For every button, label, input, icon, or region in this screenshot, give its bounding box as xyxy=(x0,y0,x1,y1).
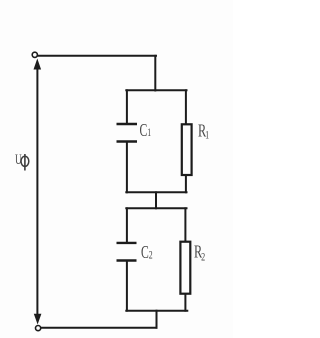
wire block2 bottom edge xyxy=(126,310,187,312)
terminal top (circle) xyxy=(32,52,37,57)
wire feed down to block 1 xyxy=(154,56,156,91)
label C2 xyxy=(141,243,153,263)
wire top horizontal xyxy=(38,55,157,57)
wire middle connector node between blocks xyxy=(155,192,157,208)
terminal bottom (circle) xyxy=(36,326,41,331)
capacitor C2 xyxy=(117,243,137,261)
wire block2 left lower (from C2) xyxy=(126,261,128,311)
wire bottom connector down xyxy=(156,311,158,328)
arrowhead up at top terminal xyxy=(34,59,42,70)
wire block1 top edge xyxy=(126,89,186,91)
wire block2 right lower (from R2) xyxy=(184,294,186,311)
wire block2 left upper (to C2) xyxy=(126,208,128,242)
label Uf (source voltage) xyxy=(15,151,22,168)
wire block1 right lower (from R1) xyxy=(185,175,187,192)
label R1 xyxy=(198,121,209,142)
wire block2 top edge xyxy=(126,207,186,209)
wire block2 right upper (to R2) xyxy=(184,208,186,241)
resistor R1 xyxy=(182,124,192,175)
wire block1 right upper (to R1) xyxy=(185,90,187,124)
wire block1 left upper (to C1) xyxy=(126,90,128,123)
wire block1 bottom edge xyxy=(126,191,186,193)
wire voltage arrow line Uf xyxy=(36,66,38,317)
label C1 xyxy=(140,121,152,141)
resistor R2 xyxy=(180,242,190,294)
label R2 xyxy=(194,242,205,264)
arrowhead down at bottom terminal xyxy=(34,314,42,325)
wire bottom horizontal xyxy=(41,327,157,329)
wire block1 left lower (from C1) xyxy=(126,142,128,192)
capacitor C1 xyxy=(117,124,138,142)
